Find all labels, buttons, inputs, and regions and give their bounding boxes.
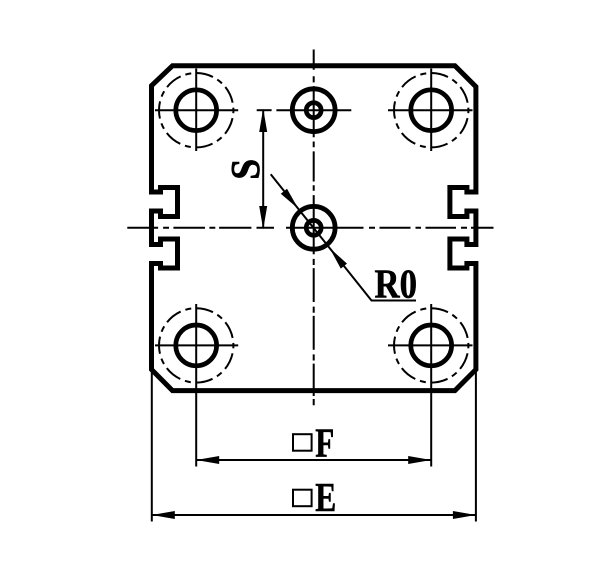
hole bottom-right crosshair + F extension line — [388, 304, 473, 467]
center hole outer circle — [292, 206, 335, 249]
hole bottom-left dashed circle — [159, 308, 233, 382]
S extension dash on top hole axis — [257, 109, 272, 111]
hole top-right circle — [411, 90, 452, 131]
hole bottom-right circle — [411, 325, 452, 366]
hole bottom-left crosshair + F extension line — [155, 304, 238, 467]
dimension S line — [262, 110, 264, 228]
svg-text:F: F — [315, 420, 334, 466]
dimension F left arrowhead — [196, 456, 219, 464]
horizontal centerline — [127, 227, 493, 229]
dimension E left extension line — [151, 370, 153, 522]
R0 lower arrowhead — [330, 248, 348, 269]
plate outline — [152, 66, 476, 391]
R0 upper arrowhead — [281, 189, 299, 209]
hole top-right crosshair — [388, 69, 473, 152]
dimension S top arrowhead — [259, 109, 267, 132]
dimension E square symbol — [293, 490, 312, 507]
dimension S bottom arrowhead — [259, 206, 267, 229]
vertical centerline — [313, 50, 315, 406]
dimension F square symbol — [293, 434, 312, 451]
svg-text:E: E — [315, 474, 336, 520]
dimension E line — [152, 514, 476, 516]
hole top-right dashed circle — [394, 73, 468, 147]
hole top-left crosshair — [155, 69, 238, 152]
center hole inner circle — [306, 220, 321, 235]
dimension F right arrowhead — [408, 456, 431, 464]
hole bottom-left circle — [176, 325, 217, 366]
dimension E left arrowhead — [152, 511, 175, 519]
svg-text:R0: R0 — [375, 261, 418, 307]
svg-text:S: S — [222, 159, 268, 180]
R0 leader line through center hole — [271, 174, 416, 300]
hole top-left circle — [176, 90, 217, 131]
top-center hole horizontal crosshair — [276, 109, 351, 111]
dimension F line — [196, 459, 431, 461]
hole bottom-right dashed circle — [394, 308, 468, 382]
dimension E right extension line — [475, 370, 477, 522]
top-center hole outer circle — [292, 89, 335, 132]
dimension E right arrowhead — [453, 511, 476, 519]
top-center hole inner circle — [306, 103, 321, 118]
hole top-left dashed circle — [159, 73, 233, 147]
